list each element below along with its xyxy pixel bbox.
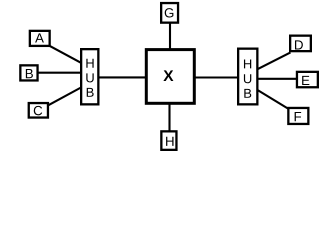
node A label: [35, 33, 44, 42]
switch X label: [163, 70, 173, 81]
hub2 box: [238, 49, 257, 105]
wire X-H: [168, 104, 170, 132]
node A box: [30, 31, 50, 46]
hub2 label H: [244, 59, 251, 68]
wire B-HUB1: [37, 72, 82, 74]
hub1 box: [81, 49, 98, 104]
hub2 label B: [244, 89, 251, 98]
node D label: [295, 40, 303, 49]
wire HUB2-D: [258, 52, 291, 69]
hub1 label B: [87, 88, 94, 97]
hub1 label H: [86, 59, 93, 68]
hub2 label U: [244, 74, 251, 83]
wire C-HUB1: [48, 88, 82, 106]
hub1 label U: [86, 73, 93, 82]
node G box: [161, 3, 178, 23]
node B box: [20, 65, 37, 80]
node F label: [295, 112, 302, 121]
node H box: [161, 131, 176, 150]
node E label: [302, 76, 309, 85]
switch X box: [146, 50, 194, 104]
wire X-HUB2: [194, 76, 239, 78]
node E box: [297, 72, 318, 87]
wire G-X: [169, 23, 171, 50]
node G label: [165, 8, 174, 17]
node C box: [29, 103, 48, 118]
wire HUB1-X: [98, 76, 147, 78]
node D box: [290, 36, 311, 52]
node F box: [288, 108, 308, 124]
wire A-HUB1: [50, 46, 82, 63]
wire HUB2-E: [257, 78, 297, 80]
wire HUB2-F: [258, 90, 290, 110]
node B label: [26, 69, 33, 78]
node C label: [34, 106, 42, 115]
node H label: [166, 137, 173, 146]
